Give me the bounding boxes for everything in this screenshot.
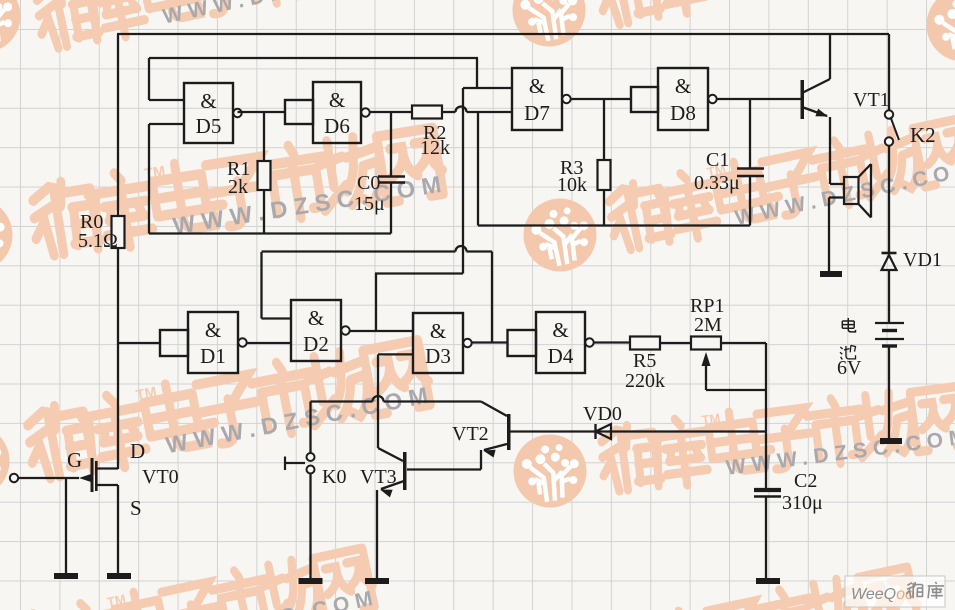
svg-text:VT1: VT1 (853, 89, 890, 111)
svg-text:D6: D6 (324, 114, 350, 138)
svg-text:2M: 2M (694, 314, 722, 336)
svg-text:12k: 12k (420, 137, 450, 159)
svg-text:D2: D2 (303, 332, 329, 356)
svg-text:K0: K0 (322, 466, 346, 488)
svg-text:VT0: VT0 (142, 466, 179, 488)
svg-text:&: & (430, 319, 446, 343)
svg-text:C2: C2 (794, 470, 817, 492)
svg-text:VT3: VT3 (360, 466, 397, 488)
svg-text:S: S (130, 496, 142, 520)
svg-text:10k: 10k (557, 174, 587, 196)
svg-text:&: & (308, 306, 324, 330)
svg-text:15μ: 15μ (354, 193, 385, 215)
svg-text:VD0: VD0 (583, 403, 622, 425)
svg-text:C1: C1 (706, 149, 729, 171)
svg-text:D1: D1 (200, 344, 226, 368)
svg-text:5.1Ω: 5.1Ω (78, 230, 118, 252)
svg-text:&: & (552, 318, 568, 342)
svg-text:&: & (200, 89, 216, 113)
svg-text:WWW.DZSC.COM: WWW.DZSC.COM (722, 0, 955, 5)
svg-text:D: D (130, 439, 145, 463)
svg-text:WeeQoo: WeeQoo (851, 586, 914, 603)
svg-text:D8: D8 (670, 101, 696, 125)
svg-text:WWW.DZSC.COM: WWW.DZSC.COM (161, 0, 409, 29)
svg-text:D3: D3 (425, 344, 451, 368)
svg-text:VT2: VT2 (452, 423, 489, 445)
svg-text:6V: 6V (837, 357, 862, 379)
svg-text:&: & (675, 74, 691, 98)
svg-text:C0: C0 (357, 172, 380, 194)
svg-text:&: & (205, 318, 221, 342)
svg-text:0.33μ: 0.33μ (694, 172, 740, 194)
svg-text:G: G (67, 448, 82, 472)
svg-text:2k: 2k (228, 176, 248, 198)
svg-text:D7: D7 (524, 101, 550, 125)
svg-text:&: & (329, 88, 345, 112)
svg-text:VD1: VD1 (903, 249, 942, 271)
svg-text:220k: 220k (625, 370, 665, 392)
svg-text:D4: D4 (548, 344, 574, 368)
svg-text:K2: K2 (910, 123, 936, 147)
svg-text:&: & (529, 74, 545, 98)
svg-text:R5: R5 (633, 350, 656, 372)
svg-text:310μ: 310μ (782, 492, 823, 514)
svg-text:D5: D5 (196, 114, 222, 138)
